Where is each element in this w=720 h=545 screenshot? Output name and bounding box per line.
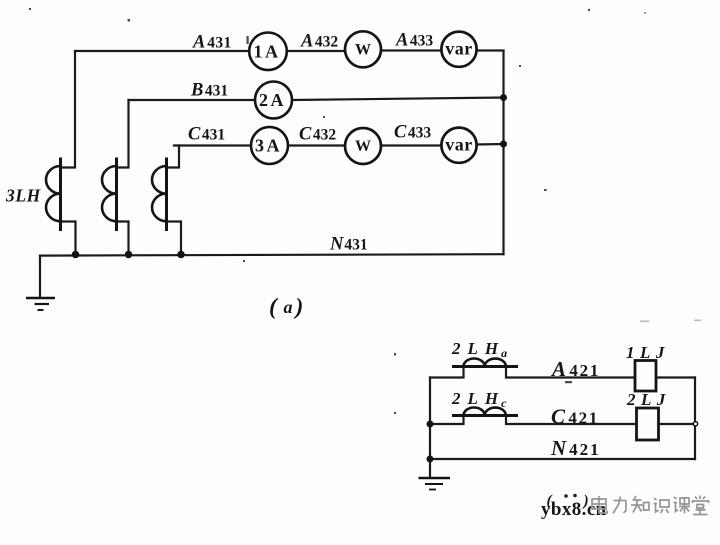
ground (a) — [26, 298, 55, 310]
ammeter 3A — [251, 127, 288, 164]
svg-text:W: W — [355, 138, 371, 155]
svg-text:2LHa: 2LHa — [451, 339, 514, 360]
char 力 — [613, 497, 626, 514]
wire row C432 between W and var — [381, 144, 442, 146]
char 堂 — [693, 496, 709, 515]
wire drop row B to CT2 — [117, 100, 129, 168]
svg-text:2LJ: 2LJ — [626, 390, 671, 409]
junction right bus/C433 — [500, 141, 507, 148]
svg-text:1A: 1A — [254, 41, 281, 61]
wire row A431 left segment — [75, 50, 249, 52]
svg-text:A431: A431 — [192, 33, 232, 53]
scan speck marks — [29, 8, 701, 414]
wire C421 row: 2LJ to right bus — [659, 423, 693, 425]
wire row B431 2A to right bus — [292, 98, 504, 101]
svg-text:A433: A433 — [395, 31, 433, 51]
transformer 3LH phase C bar — [165, 158, 168, 232]
svg-text:var: var — [445, 135, 473, 155]
wire drop row C to CT3 — [167, 146, 179, 168]
junction N431/CT2 — [125, 251, 133, 259]
transformer 2LHc bar — [452, 414, 518, 417]
wire C421 row: CT to 2LJ — [506, 416, 636, 425]
wire A421 row: 1LJ to right bus — [656, 376, 695, 378]
char 课 — [674, 497, 691, 514]
varmeter var (A phase) — [441, 32, 476, 67]
svg-text:2LHc: 2LHc — [451, 389, 513, 410]
junction N431/CT3 — [177, 251, 185, 259]
svg-text:C432: C432 — [299, 125, 336, 145]
svg-text:var: var — [445, 39, 473, 59]
wattmeter W (A phase) — [345, 31, 381, 67]
wire row A433 var to right bus — [476, 49, 504, 51]
wire right bus (b) — [694, 378, 696, 460]
char 识 — [654, 498, 670, 513]
transformer 2LHc winding arcs — [464, 408, 506, 416]
wire row C431 left segment — [174, 144, 251, 146]
wire CT2 bottom to N431 — [117, 222, 129, 255]
junction left bus/C421 — [427, 421, 434, 428]
transformer 3LH phase A winding arcs — [46, 166, 61, 221]
transformer 3LH phase A bar — [59, 158, 62, 232]
wire row A431 between 1A and W — [287, 50, 346, 52]
terminal right bus/C421 (open) — [693, 422, 697, 426]
wire ground drop (a) — [39, 256, 41, 298]
wire N421 row — [430, 458, 695, 460]
wire left bus (b) — [429, 378, 431, 478]
relay coil 2LJ — [637, 408, 659, 440]
watermark chinese 电力知识课堂 — [592, 496, 709, 515]
ground (b) — [419, 478, 451, 490]
wire CT3 bottom to N431 — [167, 222, 181, 255]
wire drop row A to CT1 — [61, 51, 75, 168]
wire A421 row: bus to CT — [430, 367, 464, 378]
svg-text:N431: N431 — [329, 235, 368, 255]
junction right bus/B431 — [500, 94, 507, 101]
char 电 — [592, 496, 607, 513]
svg-text:A432: A432 — [300, 32, 338, 52]
junction left bus/N421 — [427, 456, 434, 463]
relay coil 1LJ — [635, 361, 656, 392]
svg-text:W: W — [355, 41, 371, 58]
wire row A432 between W and var — [381, 49, 442, 51]
junction N431/CT1 — [72, 251, 80, 259]
transformer 3LH phase C winding arcs — [152, 166, 167, 221]
varmeter var (C phase) — [441, 128, 476, 163]
svg-text:2A: 2A — [259, 90, 286, 110]
svg-text:a: a — [284, 297, 293, 317]
wire CT1 bottom to N431 — [61, 222, 76, 255]
svg-text:3A: 3A — [255, 135, 282, 155]
transformer 3LH phase B winding arcs — [102, 166, 117, 221]
svg-text:C431: C431 — [188, 125, 225, 145]
wire row C431 between 3A and W — [288, 144, 346, 146]
wire A421 row: CT to 1LJ — [506, 367, 635, 378]
transformer 2LHa bar — [452, 365, 518, 368]
wire C421 row: bus to CT — [430, 416, 464, 425]
transformer 3LH phase B bar — [115, 158, 118, 232]
svg-text:): ) — [294, 294, 304, 320]
svg-text:N421: N421 — [550, 436, 601, 460]
ammeter 1A — [249, 33, 287, 71]
svg-text:1LJ: 1LJ — [626, 343, 670, 362]
svg-text:B431: B431 — [190, 81, 228, 101]
svg-text:C421: C421 — [551, 405, 599, 429]
wire N431 horizontal line — [40, 254, 504, 255]
wire row C433 var to right bus — [476, 143, 504, 146]
svg-text:3LH: 3LH — [5, 186, 42, 206]
char 知 — [631, 496, 649, 513]
ammeter 2A — [255, 82, 292, 119]
svg-text:A421: A421 — [550, 357, 600, 381]
wire right bus vertical — [502, 51, 504, 254]
transformer 2LHa winding arcs — [464, 359, 506, 367]
wattmeter W (C phase) — [345, 128, 381, 164]
svg-text:C433: C433 — [394, 123, 431, 143]
wire row B431 left segment — [129, 99, 256, 101]
